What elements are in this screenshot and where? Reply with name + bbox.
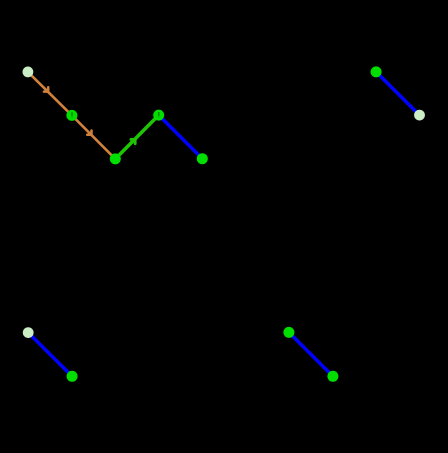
node D (green, with ! mark)	[153, 110, 164, 121]
node J (green)	[283, 327, 294, 338]
wire edge F-G (blue)	[376, 72, 419, 115]
arrowhead on edge A-B	[44, 87, 48, 91]
node K (green)	[327, 371, 338, 382]
node A (pale start node)	[23, 67, 34, 78]
arrowhead on edge C-D	[131, 139, 135, 143]
wire edge H-I (blue)	[28, 333, 72, 377]
wire edge B-C (orange directed)	[72, 115, 115, 158]
node C (green)	[110, 153, 121, 164]
node H (pale)	[23, 327, 34, 338]
wire edge D-E (blue)	[159, 115, 203, 159]
node I (green)	[67, 371, 78, 382]
wire edge C-D (green directed)	[115, 115, 158, 159]
arrowhead on edge B-C	[87, 131, 91, 135]
wire edge A-B (orange directed)	[28, 72, 72, 116]
node B (green, with ! mark)	[66, 110, 77, 121]
node F (green)	[371, 66, 382, 77]
node E (green)	[197, 153, 208, 164]
wire edge J-K (blue)	[289, 332, 333, 376]
node G (pale)	[414, 110, 425, 121]
